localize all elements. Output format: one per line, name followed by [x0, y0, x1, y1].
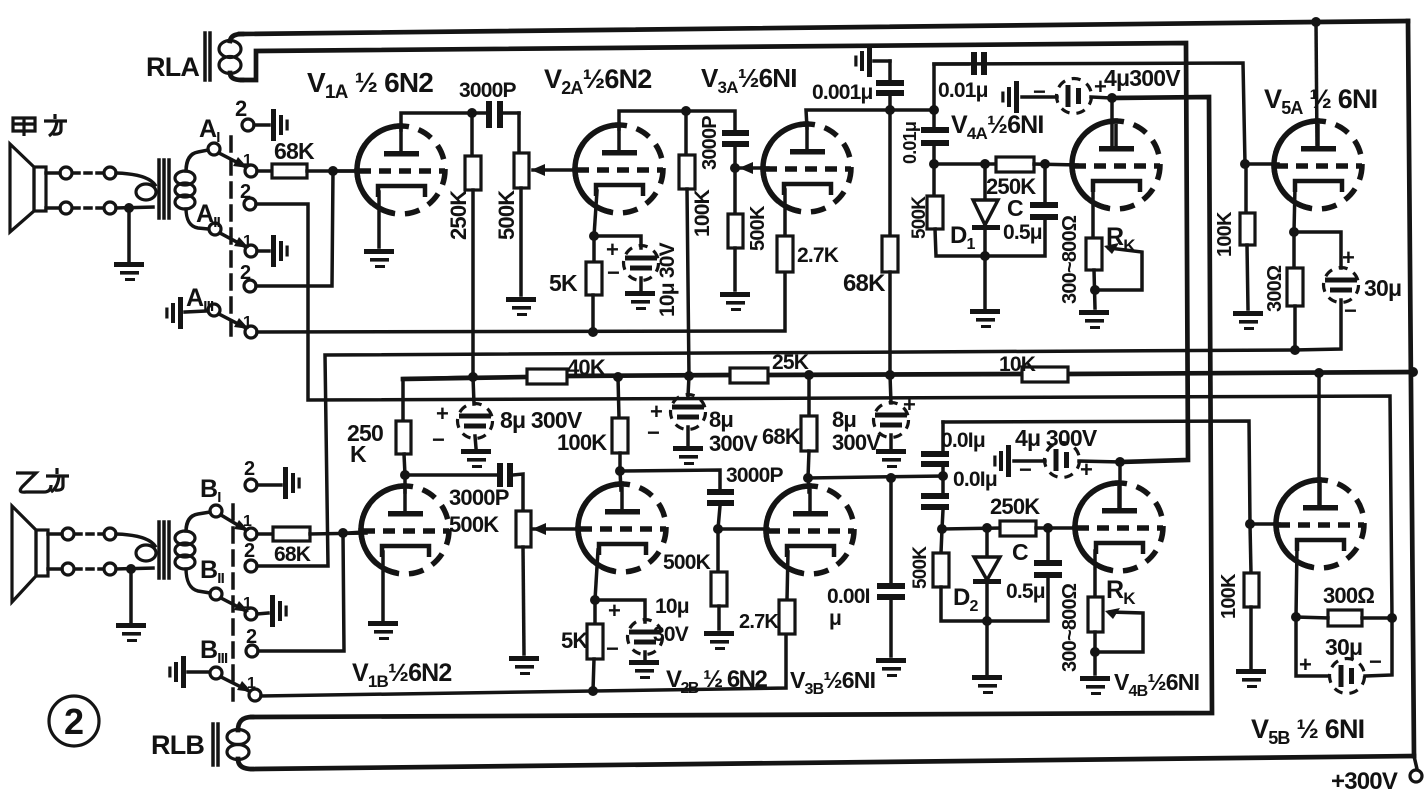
capacitor 8uF 300V C	[874, 375, 909, 448]
capacitor 4uF 300V B	[1014, 443, 1120, 478]
ground 8uF C	[876, 449, 906, 468]
svg-text:2: 2	[240, 262, 251, 284]
node RK B bottom	[1090, 647, 1100, 657]
switch A1 arm	[219, 153, 248, 168]
capacitor 0.01uF series A	[921, 110, 949, 164]
svg-text:500K: 500K	[494, 190, 519, 240]
resistor 300ohm B	[1296, 610, 1392, 626]
transformer A primary loop	[116, 173, 156, 208]
svg-text:0.0Iμ: 0.0Iμ	[953, 468, 997, 491]
transformer B secondary	[175, 512, 210, 593]
svg-text:2: 2	[246, 626, 257, 648]
transformer B core	[159, 522, 169, 578]
svg-text:1: 1	[243, 513, 252, 530]
polarity marks A	[432, 74, 1356, 452]
wire V3B anode row	[808, 476, 943, 478]
node 8uF-C on bus	[885, 370, 895, 380]
diode D2	[973, 528, 1001, 621]
node 8uF-B on bus	[684, 371, 694, 381]
terminal B top	[48, 528, 74, 540]
capacitor 0.001uF A	[874, 61, 904, 110]
wire A3 contact1 line to V3A cathode	[257, 272, 785, 332]
wire coupling V3A anode to V5A grid	[934, 63, 1245, 164]
wire B3 contact2 riser	[258, 533, 344, 651]
tube V3A	[763, 124, 851, 212]
svg-text:300Ω: 300Ω	[1264, 265, 1286, 312]
node 300ohm B left	[1291, 612, 1301, 622]
svg-text:5K: 5K	[549, 270, 578, 296]
speaker A	[10, 144, 46, 232]
svg-text:100K: 100K	[1218, 573, 1240, 619]
capacitor C 0.5uF A	[985, 164, 1058, 256]
terminal +300V	[1410, 756, 1422, 782]
node V5A anode feed	[1311, 17, 1321, 27]
node V4B grid junction	[1043, 523, 1053, 533]
svg-text:40K: 40K	[567, 355, 606, 380]
wire dashed B bottom	[75, 563, 116, 575]
svg-text:1: 1	[243, 314, 252, 331]
wire V5A cathode return to switch B2	[257, 350, 1295, 566]
node D2 anode	[982, 523, 992, 533]
switch A3 contact 1	[245, 326, 257, 338]
ground 0.001uF B	[876, 658, 906, 677]
tube V2B	[578, 484, 666, 572]
ground 8uF B	[673, 446, 703, 465]
node V5A cathode out	[1290, 345, 1300, 355]
capacitor 0.01uF inline A	[934, 52, 987, 110]
svg-text:V3A½6NI: V3A½6NI	[701, 63, 797, 97]
capacitor 10uF 30V A	[594, 236, 659, 290]
svg-text:500K: 500K	[449, 512, 499, 537]
resistor 250K B riser	[396, 377, 473, 475]
tube V3B	[766, 486, 854, 574]
polarity marks B	[606, 457, 1381, 677]
svg-text:0.0Iμ: 0.0Iμ	[941, 429, 985, 452]
resistor 100K plate V2A	[679, 111, 695, 377]
svg-text:500K: 500K	[663, 551, 711, 574]
svg-text:10μ: 10μ	[655, 595, 689, 618]
resistor 500K AGC B	[933, 529, 987, 621]
resistor 250K AGC A	[996, 157, 1077, 172]
resistor 100K grid V5A	[1240, 164, 1255, 309]
tube V1A	[357, 126, 445, 214]
svg-text:+: +	[1342, 245, 1354, 270]
wire V1A cathode to ground	[377, 192, 381, 247]
node speaker A ground junction	[124, 203, 134, 213]
ground V1B cathode	[368, 621, 398, 640]
speaker B	[12, 506, 48, 602]
wire V5A cathode	[1294, 187, 1295, 232]
capacitor 10uF 30V B	[595, 600, 663, 659]
node 5K bottom on B3 line	[588, 686, 598, 696]
wire wiper to V2A grid	[531, 164, 577, 176]
wire dashed A top	[73, 167, 116, 179]
svg-text:1: 1	[243, 233, 252, 250]
svg-text:−: −	[432, 427, 444, 452]
switch B1 contact 2	[245, 467, 301, 499]
switch B1 arm	[221, 515, 249, 531]
svg-text:2.7K: 2.7K	[797, 244, 839, 267]
svg-text:10K: 10K	[999, 353, 1036, 376]
ground 500K A1	[506, 297, 536, 316]
svg-text:300~800Ω: 300~800Ω	[1059, 583, 1081, 672]
svg-text:100K: 100K	[1214, 211, 1236, 257]
resistor 500K AGC A	[927, 164, 985, 256]
ground RK A	[1079, 310, 1109, 329]
svg-text:2.7K: 2.7K	[739, 611, 779, 633]
svg-text:V1B½6N2: V1B½6N2	[352, 659, 452, 691]
wire V2B anode	[620, 471, 621, 490]
symbol circled 2	[49, 696, 99, 746]
rheostat RK A	[1086, 238, 1102, 308]
wire V1A anode rail	[401, 113, 472, 130]
potentiometer 500K B1	[516, 511, 531, 654]
svg-text:500K: 500K	[909, 196, 930, 239]
node V3B grid junction	[713, 524, 723, 534]
node V1A grid junction	[328, 166, 338, 176]
wire V5A grid lead	[1245, 162, 1278, 166]
switch B3 contact 1	[249, 689, 261, 701]
switch A1 contact 2	[242, 109, 289, 141]
switch A mechanical link	[229, 137, 233, 340]
transformer B primary loop	[116, 534, 156, 569]
svg-text:4μ 300V: 4μ 300V	[1015, 425, 1098, 451]
tube V1B	[361, 486, 449, 574]
wire V4A anode	[1110, 98, 1114, 146]
ground D2	[972, 621, 1002, 694]
svg-text:500K: 500K	[747, 205, 769, 251]
wire A3 contact2 riser	[256, 171, 333, 286]
wire V5B anode	[1317, 373, 1321, 506]
switch B3 pole with jack	[168, 656, 222, 688]
wire V5B cathode	[1296, 546, 1297, 617]
svg-text:30μ: 30μ	[1364, 275, 1401, 301]
ground sideways 0.001uF A	[854, 45, 872, 77]
node V3A anode junction	[885, 105, 895, 115]
ground V1A cathode	[364, 249, 394, 268]
ground 10uF A	[625, 291, 655, 310]
wire coupling V3B riser to V5B grid	[943, 421, 1250, 524]
capacitor 0.001uF B	[877, 478, 905, 656]
switch A2 contact 2	[244, 198, 256, 210]
resistor 68K input A	[257, 164, 360, 178]
svg-text:−: −	[607, 260, 619, 285]
svg-text:68K: 68K	[274, 138, 315, 164]
node V4A anode junction	[1107, 93, 1117, 103]
svg-text:+: +	[1094, 74, 1106, 99]
svg-text:+: +	[1299, 652, 1311, 677]
wire RK A wiper loop	[1095, 243, 1142, 290]
diode D1	[972, 164, 1000, 256]
switch B2 pole	[210, 588, 222, 600]
wire V2B cathode lead	[595, 550, 598, 600]
node 300ohm B right	[1387, 613, 1397, 623]
capacitor C 0.5uF B	[987, 528, 1062, 621]
label yifang (Party B)	[16, 468, 69, 492]
ground 500K A2	[720, 292, 750, 311]
switch B2 contact 2	[245, 560, 257, 572]
node AGC B junction	[937, 524, 947, 534]
node 0.01B riser junction	[938, 471, 948, 481]
svg-text:0.01μ: 0.01μ	[900, 122, 920, 164]
svg-text:RLB: RLB	[151, 730, 204, 760]
tube V4A	[1072, 121, 1160, 209]
svg-text:−: −	[1033, 79, 1045, 104]
wire V1B anode	[403, 475, 407, 492]
wire AGC row A	[934, 162, 996, 166]
svg-text:−: −	[1344, 298, 1356, 323]
resistor 25K	[730, 368, 768, 383]
resistor 40K	[527, 369, 567, 384]
capacitor 8uF 300V B	[671, 376, 706, 445]
ground speaker A	[114, 208, 144, 281]
svg-text:μ: μ	[829, 607, 841, 630]
terminal B bottom	[48, 563, 74, 575]
resistor 2.7K B	[779, 600, 795, 634]
svg-text:0.01μ: 0.01μ	[938, 79, 988, 102]
svg-text:30μ: 30μ	[1325, 634, 1362, 660]
wire V5B grid lead	[1250, 522, 1279, 526]
wire V5A anode	[1316, 22, 1317, 146]
capacitor 3000P A1	[472, 101, 519, 128]
capacitor 0.01uF B2	[921, 476, 949, 529]
jack 4uF A	[1001, 81, 1019, 113]
switch A2 contact 1	[245, 235, 289, 267]
node V2B anode junction	[615, 466, 625, 476]
node V2A anode junction	[681, 106, 691, 116]
switch A3 contact 2	[244, 280, 256, 292]
wire V3A anode rail	[806, 110, 934, 128]
potentiometer 500K B2	[711, 529, 727, 629]
svg-text:3000P: 3000P	[699, 116, 721, 170]
terminal A top	[46, 167, 72, 179]
node speaker B ground junction	[126, 564, 136, 574]
svg-text:0.5μ: 0.5μ	[1006, 580, 1045, 603]
svg-text:68K: 68K	[762, 424, 801, 449]
node 250K-A on bus	[468, 372, 478, 382]
resistor 68K A2	[882, 110, 898, 376]
svg-text:−: −	[606, 636, 618, 661]
potentiometer 500K A2	[728, 168, 743, 290]
svg-text:V5B ½ 6NI: V5B ½ 6NI	[1251, 714, 1364, 748]
resistor 5K B	[587, 600, 603, 691]
switch B3 contact 2	[246, 645, 258, 657]
svg-text:+: +	[903, 392, 915, 417]
node V5A grid junction	[1240, 159, 1250, 169]
ground 10uF B	[629, 660, 659, 679]
svg-text:250K: 250K	[990, 494, 1040, 519]
capacitor 30uF A	[1294, 232, 1359, 350]
svg-text:100K: 100K	[691, 189, 714, 237]
svg-text:68K: 68K	[274, 543, 311, 566]
svg-text:0.00I: 0.00I	[827, 585, 870, 608]
node V2A cathode junction	[589, 231, 599, 241]
switch B1 pole	[210, 505, 222, 517]
node V3A grid junction	[730, 163, 740, 173]
resistor 68K plate V3B	[801, 375, 817, 478]
svg-text:C: C	[1007, 195, 1023, 221]
switch B2 contact 1	[245, 595, 288, 627]
svg-text:3000P: 3000P	[449, 485, 509, 510]
wire AGC row B	[942, 528, 1000, 529]
switch A1 contact 1	[245, 165, 257, 177]
wire V1A grid lead	[338, 169, 360, 173]
svg-text:−: −	[1369, 649, 1381, 674]
svg-text:RLA: RLA	[146, 52, 199, 82]
svg-text:−: −	[1019, 457, 1031, 482]
switch B mechanical link	[231, 505, 235, 700]
capacitor 3000P B2	[620, 470, 734, 529]
transformer A secondary	[175, 150, 208, 229]
node D1 anode	[980, 159, 990, 169]
svg-text:300V: 300V	[709, 431, 758, 456]
switch A3 arm	[219, 314, 249, 329]
relay RLB coil	[227, 717, 252, 769]
svg-text:3000P: 3000P	[726, 464, 784, 487]
svg-text:0.001μ: 0.001μ	[812, 81, 873, 104]
label jiafang (Party A)	[13, 114, 67, 136]
switch A3 pole with jack	[165, 297, 220, 329]
potentiometer 500K A1	[514, 113, 529, 295]
svg-text:+300V: +300V	[1331, 768, 1398, 795]
node RK A bottom	[1090, 285, 1100, 295]
wire V3A cathode to 2.7K	[783, 190, 787, 236]
wire V2A cathode lead	[594, 191, 597, 236]
ground speaker B	[116, 569, 146, 642]
resistor 10K	[1022, 367, 1068, 382]
svg-text:25K: 25K	[772, 351, 809, 374]
svg-text:100K: 100K	[557, 430, 607, 455]
svg-text:V2A½6N2: V2A½6N2	[544, 64, 652, 98]
wire RK B wiper loop	[1095, 608, 1143, 652]
svg-text:+: +	[608, 598, 620, 623]
svg-text:300V: 300V	[832, 430, 881, 455]
tube V4B	[1075, 483, 1163, 571]
svg-text:30V: 30V	[653, 623, 689, 646]
capacitor 0.01uF B1	[921, 422, 949, 476]
node D1 cathode junction	[980, 251, 990, 261]
wire +300V bottom bus to RLB	[252, 756, 1414, 769]
node V2B cathode junction	[590, 595, 600, 605]
switch A2 pole	[209, 223, 221, 235]
node V1A anode/cap junction	[467, 108, 477, 118]
svg-text:5K: 5K	[561, 628, 588, 653]
wire V1B cathode to ground	[381, 552, 385, 620]
svg-text:500K: 500K	[910, 546, 931, 589]
ground 500K B1	[509, 656, 539, 675]
svg-text:2: 2	[244, 458, 255, 480]
svg-text:+: +	[606, 237, 618, 262]
svg-text:1: 1	[247, 675, 256, 692]
svg-text:250K: 250K	[446, 190, 471, 240]
node 0.01 riser junction	[929, 105, 939, 115]
ground RK B	[1080, 676, 1110, 695]
resistor 100K grid V5B	[1244, 524, 1259, 668]
node V4A grid junction	[1040, 159, 1050, 169]
ground 100K V5B	[1236, 669, 1266, 688]
relay RLA coil	[219, 34, 242, 80]
capacitor 3000P B1	[405, 463, 523, 511]
wire V5B cathode return to switch A2	[256, 204, 1392, 618]
svg-text:8μ: 8μ	[709, 407, 733, 432]
tube V2A	[575, 125, 663, 213]
ground 8uF A	[461, 449, 491, 468]
wire RLA coil bottom feed (to V4B anode)	[242, 43, 1188, 462]
ground 500K B2	[704, 631, 734, 650]
svg-text:+: +	[436, 401, 448, 426]
rheostat RK B	[1088, 597, 1103, 674]
svg-text:2: 2	[240, 181, 251, 203]
node AGC A junction	[929, 159, 939, 169]
node V1B grid junction	[338, 528, 348, 538]
wire V1B grid lead	[348, 532, 364, 533]
node V4B anode junction	[1115, 457, 1125, 467]
resistor 300ohm A	[1287, 232, 1303, 350]
node V3B anode junction	[803, 473, 813, 483]
ground D1	[970, 256, 1000, 328]
jack 4uF B	[993, 445, 1011, 477]
svg-text:+: +	[1080, 457, 1092, 482]
wire +300V top bus from RLA to right edge	[240, 21, 1408, 34]
relay RLA core	[205, 33, 210, 80]
node 0.001uF B junction	[886, 473, 896, 483]
switch B3 arm	[221, 677, 252, 692]
node D2 cathode junction	[982, 616, 992, 626]
resistor 5K A	[586, 236, 602, 332]
tube V5B	[1276, 480, 1364, 568]
svg-text:2: 2	[244, 540, 255, 562]
tube V5A	[1274, 121, 1362, 209]
switch B1 contact 1	[245, 528, 257, 540]
svg-text:0.5μ: 0.5μ	[1003, 221, 1042, 244]
node V1B anode junction	[400, 470, 410, 480]
switch A2 arm	[220, 233, 249, 248]
svg-text:10μ 30V: 10μ 30V	[656, 242, 679, 317]
ground 100K V5A	[1233, 311, 1263, 330]
capacitor 3000P A2	[686, 111, 749, 168]
wire V2A anode rail	[619, 111, 686, 129]
wire B3 contact1 line to V3B cathode	[261, 634, 786, 696]
relay RLB core	[213, 724, 218, 765]
wire +300V right edge	[1408, 21, 1414, 756]
wire dashed B top	[75, 528, 116, 540]
resistor 250K plate V1A	[465, 113, 481, 377]
node 5K bottom on A3 line	[588, 327, 598, 337]
resistor 68K input B	[257, 527, 366, 541]
svg-text:68K: 68K	[843, 270, 886, 297]
wire V4A cathode	[1091, 189, 1095, 238]
resistor 2.7K A	[777, 236, 793, 272]
wire V3B anode	[808, 478, 809, 492]
capacitor 8uF 300V A	[458, 377, 493, 448]
transformer A core	[159, 160, 169, 218]
node 68K-B2 on bus	[804, 370, 814, 380]
node 100K-B on bus	[613, 372, 623, 382]
wire wiper to V3B grid	[722, 527, 768, 531]
svg-text:K: K	[350, 441, 367, 467]
capacitor 4uF 300V A	[1022, 79, 1112, 114]
svg-text:300Ω: 300Ω	[1323, 583, 1374, 608]
node V5B anode feed	[1314, 368, 1324, 378]
svg-text:2: 2	[235, 96, 247, 121]
svg-text:V4A½6NI: V4A½6NI	[951, 111, 1044, 143]
svg-text:2: 2	[64, 701, 83, 742]
wire V3B cathode to 2.7K	[787, 552, 788, 600]
switch B2 arm	[221, 598, 249, 612]
svg-text:8μ: 8μ	[832, 407, 856, 432]
svg-text:V5A ½ 6NI: V5A ½ 6NI	[1264, 84, 1377, 118]
svg-text:C: C	[1012, 539, 1028, 565]
